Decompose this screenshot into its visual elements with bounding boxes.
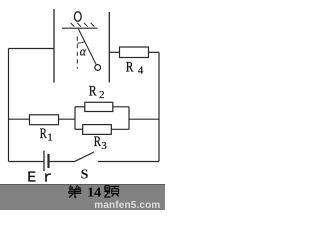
caption character 第 (drawn)	[69, 185, 82, 197]
svg-text:3: 3	[101, 140, 107, 152]
svg-text:R: R	[94, 134, 101, 150]
battery short thick plate	[47, 154, 49, 168]
string of pendulum	[78, 29, 96, 65]
svg-text:R: R	[126, 60, 134, 76]
capacitor plate right	[108, 12, 110, 83]
switch blade	[74, 152, 94, 162]
resistor R1 box	[30, 115, 59, 125]
capacitor plate left	[53, 9, 55, 83]
resistor R2 box	[85, 102, 113, 111]
node: left junction vertical	[74, 107, 76, 130]
angle arc	[77, 42, 84, 44]
wire: R3 to right junction	[111, 128, 129, 130]
svg-text:manfen5.com: manfen5.com	[94, 200, 160, 210]
pivot label O	[74, 12, 81, 21]
wire: R2 to right junction	[113, 106, 129, 108]
wire: junction to R2	[75, 106, 85, 108]
wire: top-left horizontal to left capacitor plate	[9, 48, 55, 50]
caption character 题 (drawn)	[104, 186, 119, 197]
svg-text:1: 1	[47, 131, 53, 143]
wire: bottom left to battery	[9, 161, 44, 163]
resistor R3 box	[83, 125, 112, 135]
node: right junction vertical	[128, 107, 130, 130]
resistor R4 box	[120, 47, 149, 58]
wire: battery to switch	[50, 161, 75, 163]
svg-text:4: 4	[138, 64, 144, 76]
wire: right vertical	[158, 52, 160, 161]
svg-text:S: S	[81, 168, 89, 183]
caption bar	[0, 184, 165, 210]
wire: left vertical (battery branch up to left plate)	[8, 49, 10, 162]
wire: right junction to right vertical	[129, 118, 159, 120]
charged ball	[95, 65, 101, 71]
dashed vertical reference line	[76, 37, 78, 69]
wire: switch to bottom right corner	[98, 161, 159, 163]
wire: R1 to left junction	[59, 118, 76, 120]
svg-text:E: E	[27, 170, 36, 187]
svg-text:α: α	[80, 43, 87, 58]
wire: middle branch from left wire to R1	[9, 118, 30, 120]
svg-text:r: r	[43, 170, 52, 187]
ceiling line	[62, 27, 98, 29]
battery long plate	[43, 151, 45, 172]
svg-text:2: 2	[99, 89, 105, 101]
svg-text:R: R	[40, 126, 47, 142]
wire: junction to R3	[75, 128, 83, 130]
wire: right plate to R4	[109, 51, 119, 53]
svg-text:14: 14	[87, 185, 101, 200]
svg-text:R: R	[89, 83, 97, 99]
ceiling hatches	[71, 23, 95, 27]
wire: R4 to right vertical	[149, 51, 160, 53]
